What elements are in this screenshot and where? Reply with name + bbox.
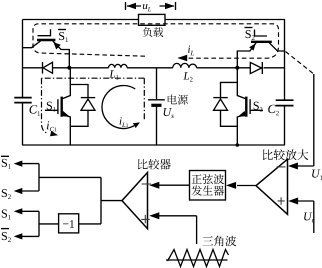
sine-wave generator box bbox=[190, 171, 226, 201]
label i_C1 bbox=[47, 121, 49, 129]
output S1-bar arrow bbox=[20, 163, 39, 165]
label S2 bbox=[254, 102, 259, 110]
IGBT S1 emitter arrow bbox=[62, 111, 70, 117]
comparator output wire bbox=[101, 200, 122, 202]
node A (left) bbox=[67, 66, 71, 70]
wire pair joins bbox=[38, 164, 40, 237]
IGBT S1 gate lead bbox=[45, 109, 58, 111]
u_L dimension annotation bbox=[126, 2, 176, 10]
label C1 bbox=[30, 105, 38, 113]
node B (right) bbox=[235, 66, 239, 70]
transistor S2-bar body bar bbox=[251, 41, 272, 43]
right freewheel diode bbox=[261, 62, 263, 74]
IGBT S2 emitter arrow bbox=[238, 111, 246, 117]
trunk wires bbox=[39, 177, 101, 224]
left rail bbox=[22, 20, 24, 146]
battery Us long plate bbox=[148, 99, 165, 101]
inductor L1 bbox=[109, 64, 128, 67]
label U_L bbox=[312, 170, 320, 178]
IGBT S2 gate bar bbox=[249, 99, 251, 114]
label dianyuan (power source) bbox=[168, 94, 177, 104]
transistor S1-bar gate bbox=[38, 29, 51, 36]
transistor S2-bar left lead down to node bbox=[237, 43, 256, 68]
label bijiaofangda (comparison amplify) bbox=[263, 149, 273, 160]
label L1 bbox=[109, 70, 115, 77]
triangle wave symbol bbox=[166, 259, 228, 261]
diode D2 triangle bbox=[214, 99, 228, 110]
transistor S1-bar right lead (emitter) down to node bbox=[53, 41, 70, 68]
IGBT S1 gate bar bbox=[57, 99, 59, 114]
label S1 bbox=[47, 102, 52, 110]
output S1 arrow bbox=[20, 210, 39, 212]
capacitor C2 bbox=[276, 100, 294, 105]
transistor S1-bar left lead to rail bbox=[23, 41, 41, 48]
dash-dot cell boundary + i_C1 arrow bbox=[42, 78, 145, 133]
label fuzai (load) bbox=[143, 27, 152, 37]
i_L arrowhead bbox=[177, 55, 187, 62]
diode D1 triangle bbox=[81, 99, 95, 110]
comparison amplifier triangle bbox=[256, 159, 288, 214]
comparator minus bbox=[142, 183, 151, 185]
battery Us short plate bbox=[151, 104, 161, 107]
transistor S2-bar gate bbox=[255, 30, 268, 37]
IGBT S2 emitter lead bbox=[237, 115, 245, 146]
node on bottom rail bbox=[236, 143, 240, 147]
label bijiaoqi (comparator) bbox=[138, 159, 148, 169]
feedback vertical wire bbox=[313, 74, 315, 166]
label i_L1 bbox=[120, 117, 122, 124]
amp bottom input wire bbox=[296, 201, 314, 233]
load resistor bbox=[139, 14, 166, 25]
capacitor C1 bbox=[14, 98, 31, 103]
left freewheel diode bbox=[42, 62, 44, 74]
S2-bar emitter arrow bbox=[249, 43, 256, 50]
battery Us wires bbox=[156, 68, 158, 145]
transistor S1-bar body bar bbox=[37, 39, 55, 41]
IGBT S1 collector lead bbox=[63, 68, 71, 99]
label Us bbox=[164, 108, 172, 116]
S1-bar emitter arrow bbox=[54, 42, 61, 49]
diode D1 cathode bar bbox=[81, 97, 95, 99]
diode D1 branch bbox=[70, 85, 88, 127]
label C2 bbox=[268, 105, 276, 113]
label U_r bbox=[304, 212, 312, 220]
output S2-bar arrow bbox=[20, 235, 39, 237]
comparator triangle bbox=[122, 173, 148, 229]
amp plus bbox=[278, 197, 285, 205]
sine box input wire bbox=[237, 185, 256, 187]
top rail (left segment) bbox=[23, 19, 139, 21]
label i_L bbox=[188, 45, 190, 52]
middle row wire bbox=[23, 67, 285, 69]
IGBT S2 gate lead bbox=[250, 109, 263, 111]
comparator plus bbox=[141, 215, 150, 223]
amp top input wire bbox=[296, 165, 314, 167]
i_L1 circulating-current arrow bbox=[102, 86, 135, 129]
transistor S2-bar right lead to rail bbox=[269, 43, 285, 51]
bottom rail bbox=[22, 144, 285, 146]
comparator bottom input wire bbox=[158, 216, 197, 244]
diode D2 branch bbox=[221, 82, 238, 126]
diode D2 cathode bar bbox=[213, 97, 227, 99]
output S2 arrow bbox=[20, 190, 39, 192]
inverter box -1 bbox=[59, 214, 79, 233]
top rail (right segment) bbox=[165, 19, 285, 21]
IGBT S2 collector lead bbox=[237, 68, 245, 99]
IGBT S2 body bar bbox=[245, 97, 247, 117]
comparator top input wire bbox=[158, 184, 190, 186]
IGBT S1 emitter lead bbox=[63, 115, 71, 146]
feedback tap: dashed diagonal bbox=[286, 52, 314, 75]
label L2 bbox=[183, 72, 189, 79]
label sanjiaobo (triangle wave) bbox=[202, 236, 213, 245]
IGBT S1 body bar bbox=[61, 97, 63, 117]
label S1-bar bbox=[59, 32, 64, 40]
amp minus bbox=[277, 166, 286, 168]
dashed current loop (S-bar boxes + i_L path) bbox=[33, 24, 279, 58]
right rail bbox=[284, 20, 286, 146]
label S2-bar bbox=[246, 30, 251, 38]
inductor L2 bbox=[173, 63, 197, 67]
